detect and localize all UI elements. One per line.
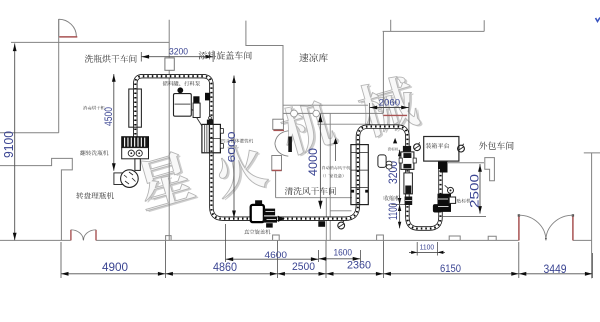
svg-text:2360: 2360 (347, 260, 371, 272)
svg-text:3200: 3200 (169, 47, 188, 57)
svg-text:4900: 4900 (102, 262, 128, 274)
svg-text:6000: 6000 (227, 131, 238, 163)
svg-text:4860: 4860 (213, 262, 237, 274)
svg-text:9100: 9100 (2, 131, 16, 158)
svg-text:1600: 1600 (334, 248, 353, 259)
svg-text:1100: 1100 (420, 244, 435, 251)
svg-text:4600: 4600 (265, 250, 288, 261)
svg-text:2500: 2500 (470, 174, 482, 208)
svg-text:2060: 2060 (379, 98, 401, 109)
svg-text:4000: 4000 (306, 148, 320, 176)
svg-text:4500: 4500 (103, 107, 115, 126)
svg-text:1100: 1100 (388, 203, 400, 220)
svg-text:6150: 6150 (440, 263, 461, 275)
svg-text:3449: 3449 (544, 262, 567, 276)
svg-text:2500: 2500 (292, 261, 315, 273)
